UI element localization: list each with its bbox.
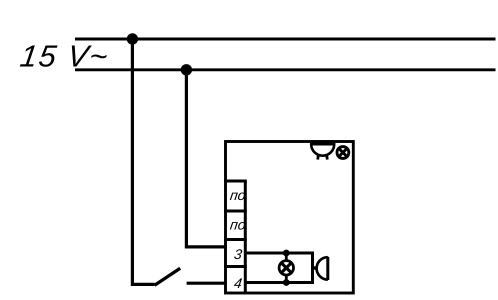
device box U1 <box>226 142 354 294</box>
wire loop right edge <box>311 253 314 283</box>
horn (buzzer) symbol <box>313 257 328 280</box>
bell symbol (box top-right) <box>311 144 335 160</box>
junction dot on top rail <box>127 33 138 44</box>
terminal strip right edge <box>244 181 247 293</box>
wire from bottom rail down to terminal 3 <box>186 70 227 247</box>
wire switch contact to terminal 4 <box>187 282 227 285</box>
switch blade (open) <box>155 268 181 285</box>
wire terminal 3 to internal loop (top) <box>245 252 314 255</box>
junction dot lamp top lead <box>283 250 290 257</box>
terminal strip divider 1 <box>224 180 247 183</box>
junction dot lamp bottom lead <box>283 279 290 286</box>
terminal strip divider 4 <box>224 265 247 268</box>
wire top supply rail <box>75 38 496 41</box>
wire bottom supply rail <box>75 68 496 71</box>
terminal strip divider 2 <box>224 210 247 213</box>
lamp symbol (box top-right) <box>337 147 349 159</box>
wire terminal 4 to internal loop (bottom) <box>245 281 314 284</box>
svg-text:3: 3 <box>233 246 243 262</box>
svg-text:4: 4 <box>233 275 243 291</box>
lamp HL in loop with leads <box>279 253 293 283</box>
wire from top rail down to switch pivot <box>132 39 154 284</box>
terminal strip divider 3 <box>224 238 247 241</box>
junction dot on bottom rail <box>181 64 192 75</box>
svg-text:по: по <box>229 217 247 233</box>
svg-text:по: по <box>229 187 247 203</box>
